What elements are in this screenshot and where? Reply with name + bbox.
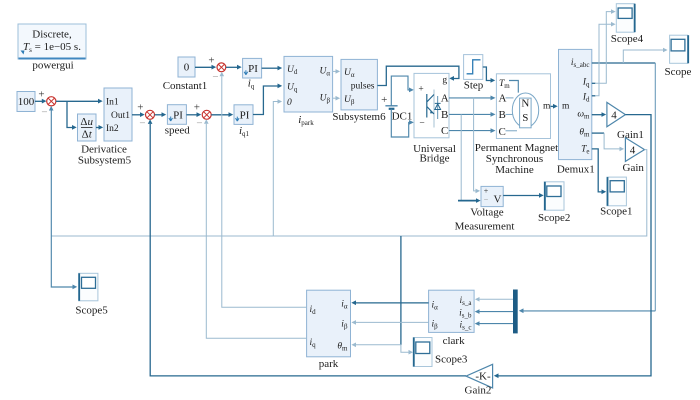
wire Gain2 to S2 minus bbox=[148, 119, 466, 376]
block Derivatice Subsystem5 bbox=[78, 88, 132, 167]
dc source DC1 bbox=[381, 94, 412, 123]
wire feedback up to S1 minus bbox=[49, 106, 54, 236]
svg-text:Ts = 1e−05 s.: Ts = 1e−05 s. bbox=[23, 41, 81, 54]
svg-text:A: A bbox=[441, 92, 449, 104]
scope Scope1 bbox=[600, 177, 632, 217]
mux bar bbox=[513, 290, 518, 334]
wire pulses to bridge gate bbox=[377, 66, 459, 85]
svg-text:Scope4: Scope4 bbox=[611, 33, 644, 45]
wire PI speed to S3 bbox=[186, 102, 201, 118]
svg-text:+: + bbox=[418, 85, 423, 95]
svg-text:C: C bbox=[441, 125, 448, 137]
PI controller speed bbox=[165, 105, 191, 137]
svg-text:PI: PI bbox=[248, 63, 258, 75]
wire Step to Tm bbox=[483, 67, 495, 83]
wire Id to Scope4 bbox=[592, 22, 616, 96]
svg-text:100: 100 bbox=[18, 96, 35, 108]
svg-text:−: − bbox=[139, 118, 145, 130]
block du/dt bbox=[78, 114, 97, 141]
svg-text:Scope: Scope bbox=[665, 66, 692, 78]
wire Constant1 to S4 bbox=[195, 55, 216, 70]
wire PI iq1 to Uq input bbox=[253, 84, 282, 115]
block powergui bbox=[18, 24, 86, 72]
svg-text:-K-: -K- bbox=[475, 371, 491, 383]
svg-text:A: A bbox=[499, 92, 507, 104]
svg-text:m: m bbox=[562, 102, 570, 112]
svg-text:Subsystem6: Subsystem6 bbox=[332, 111, 386, 123]
svg-text:4: 4 bbox=[611, 110, 617, 122]
svg-text:+: + bbox=[194, 102, 200, 114]
wire motor m to Demux1 bbox=[551, 104, 558, 109]
wire wm to Gain1 bbox=[592, 112, 606, 117]
svg-text:−: − bbox=[196, 118, 202, 130]
subsystem i_park bbox=[284, 56, 333, 126]
wire S3 to PI iq1 bbox=[211, 112, 233, 117]
gain Gain bbox=[623, 138, 645, 174]
wire is_abc to mux bar bbox=[519, 63, 656, 313]
svg-text:+: + bbox=[208, 55, 214, 67]
demux Demux1 bbox=[557, 49, 595, 175]
svg-text:Scope2: Scope2 bbox=[538, 212, 570, 224]
svg-text:Δt: Δt bbox=[82, 129, 93, 141]
wire Gain1 to Gain2 long feedback bbox=[494, 115, 651, 379]
PI controller iq bbox=[243, 58, 262, 90]
svg-text:Subsystem5: Subsystem5 bbox=[78, 155, 132, 167]
svg-text:0: 0 bbox=[184, 62, 190, 74]
wire park iq to S3 minus bbox=[204, 119, 307, 338]
wire voltmeter to Scope2 bbox=[503, 193, 544, 198]
wire mux to clark is_a bbox=[475, 297, 513, 302]
svg-text:Bridge: Bridge bbox=[420, 153, 450, 165]
svg-text:Scope1: Scope1 bbox=[600, 206, 632, 218]
wire PI iq to Ud input bbox=[262, 66, 283, 71]
wire bridge C to motor bbox=[449, 128, 496, 133]
PI controller iq1 bbox=[234, 105, 253, 138]
wire clark ia to park bbox=[351, 300, 428, 305]
svg-text:B: B bbox=[441, 109, 448, 121]
wire tap phase A to voltmeter bbox=[474, 98, 481, 193]
wire Out1 to S2 bbox=[132, 102, 145, 118]
subsystem Subsystem6 bbox=[332, 59, 386, 123]
wire S4 to PI iq bbox=[226, 65, 242, 70]
svg-text:−: − bbox=[212, 71, 218, 83]
wire mux to clark is_b bbox=[475, 309, 513, 314]
wire Gain output theta feedback bbox=[51, 150, 647, 236]
svg-text:+: + bbox=[381, 94, 387, 106]
scope Scope5 bbox=[75, 273, 108, 316]
svg-text:Scope3: Scope3 bbox=[435, 354, 468, 366]
svg-text:clark: clark bbox=[443, 335, 465, 347]
wire feedback down to Scope5 bbox=[51, 236, 77, 289]
svg-text:−: − bbox=[419, 119, 424, 129]
svg-text:Scope5: Scope5 bbox=[75, 305, 108, 317]
svg-text:speed: speed bbox=[165, 125, 191, 137]
svg-text:pulses: pulses bbox=[351, 82, 375, 92]
sum S3 bbox=[196, 110, 211, 129]
svg-text:Gain2: Gain2 bbox=[465, 385, 492, 397]
constant 100 bbox=[17, 92, 35, 112]
wire park id to S4 minus bbox=[220, 72, 307, 308]
wire Iq to Scope4 bbox=[592, 9, 616, 83]
wire feedback branch to park theta and Scope3 bbox=[351, 236, 413, 354]
scope Scope bbox=[665, 35, 692, 78]
svg-text:Gain1: Gain1 bbox=[617, 129, 644, 141]
wire tap phase B to voltmeter bbox=[458, 114, 481, 203]
svg-text:Constant1: Constant1 bbox=[163, 80, 208, 92]
svg-text:g: g bbox=[442, 76, 447, 86]
svg-text:Step: Step bbox=[464, 80, 484, 92]
svg-text:Out1: Out1 bbox=[111, 111, 130, 121]
wire DC1 minus to bridge bbox=[391, 109, 414, 137]
subsystem clark bbox=[429, 290, 475, 347]
wire bridge B to motor bbox=[449, 112, 496, 117]
sum S2 bbox=[139, 110, 154, 129]
svg-text:+: + bbox=[38, 89, 44, 101]
source Step bbox=[464, 55, 484, 92]
gain Gain2 bbox=[465, 364, 493, 396]
svg-text:Measurement: Measurement bbox=[455, 221, 515, 233]
wire feedback branch to i_park 0 input bbox=[273, 99, 282, 236]
subsystem park bbox=[307, 290, 351, 370]
scope Scope2 bbox=[538, 182, 570, 224]
wire thm to Gain bbox=[592, 133, 624, 151]
svg-text:Machine: Machine bbox=[495, 164, 534, 176]
svg-text:In2: In2 bbox=[106, 124, 119, 134]
svg-text:V: V bbox=[494, 194, 502, 206]
wire Ualpha to Subsystem6 bbox=[333, 69, 341, 74]
svg-text:Discrete,: Discrete, bbox=[32, 29, 72, 41]
svg-text:B: B bbox=[499, 109, 506, 121]
svg-text:Gain: Gain bbox=[623, 162, 645, 174]
svg-text:4: 4 bbox=[630, 145, 636, 157]
wire Ubeta to Subsystem6 bbox=[333, 96, 341, 101]
svg-text:Δu: Δu bbox=[80, 116, 93, 128]
wire Te to Scope1 bbox=[592, 149, 606, 194]
wire du/dt to In2 bbox=[96, 125, 103, 130]
wire branch is_abc to Scope bbox=[623, 48, 667, 63]
svg-text:In1: In1 bbox=[106, 98, 119, 108]
wire S1 to In1 with branch to derivative bbox=[56, 99, 103, 130]
block Universal Bridge bbox=[413, 73, 456, 164]
wire mux to clark is_c bbox=[475, 321, 513, 326]
scope Scope4 bbox=[611, 4, 644, 45]
wire DC1 plus to bridge bbox=[391, 76, 414, 106]
wire 100 to S1 bbox=[35, 89, 47, 104]
svg-text:PI: PI bbox=[240, 110, 250, 122]
svg-text:S: S bbox=[522, 112, 528, 124]
wire clark ib to park bbox=[351, 320, 428, 325]
svg-text:powergui: powergui bbox=[32, 60, 73, 72]
svg-text:park: park bbox=[319, 358, 339, 370]
block Permanent Magnet Synchronous Machine bbox=[475, 74, 558, 176]
svg-text:PI: PI bbox=[173, 110, 183, 122]
svg-text:−: − bbox=[484, 195, 489, 204]
svg-text:N: N bbox=[521, 97, 529, 109]
svg-text:Voltage: Voltage bbox=[470, 207, 504, 219]
gain Gain1 bbox=[607, 102, 644, 141]
sum S1 bbox=[41, 97, 56, 119]
scope Scope3 bbox=[413, 338, 468, 367]
constant Constant1 bbox=[163, 57, 208, 92]
sum S4 bbox=[212, 63, 225, 83]
svg-text:−: − bbox=[41, 107, 47, 119]
svg-text:C: C bbox=[499, 126, 506, 138]
svg-text:+: + bbox=[137, 102, 143, 114]
svg-text:Demux1: Demux1 bbox=[557, 164, 595, 176]
wire bridge A to motor bbox=[449, 96, 496, 101]
wire S2 to PI speed bbox=[155, 112, 167, 117]
svg-text:0: 0 bbox=[287, 98, 292, 108]
voltmeter Voltage Measurement bbox=[455, 186, 515, 232]
svg-text:m: m bbox=[543, 102, 551, 112]
